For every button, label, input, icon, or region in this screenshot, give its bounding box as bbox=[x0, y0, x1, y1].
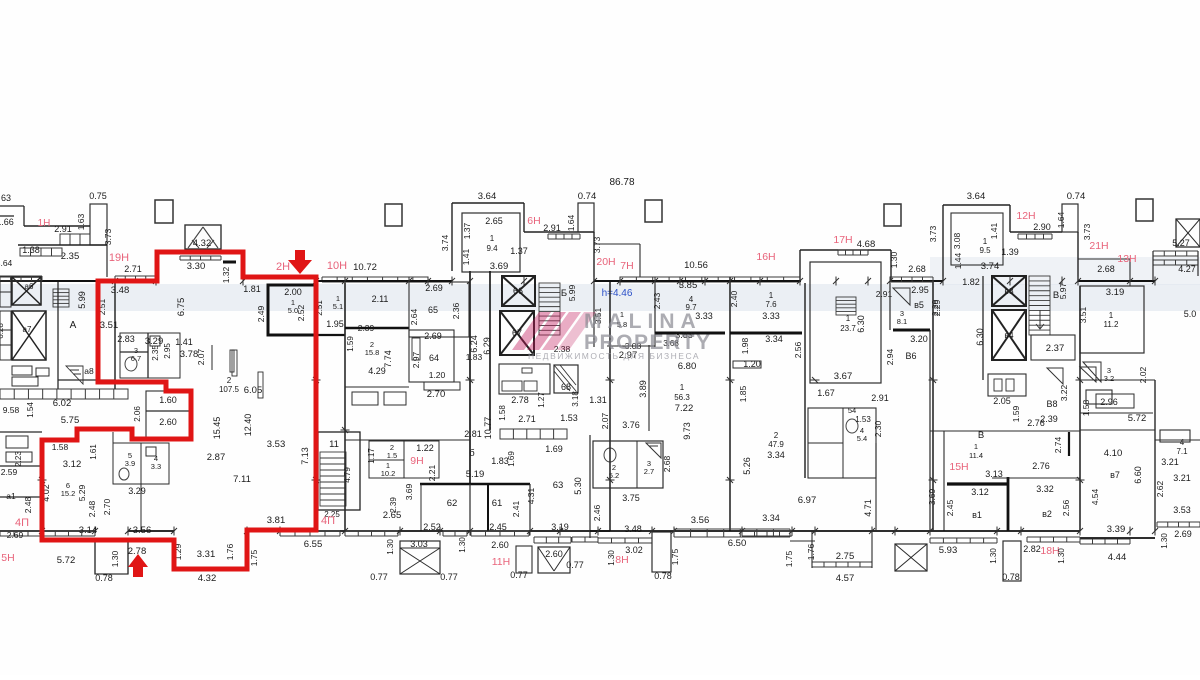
svg-text:1.44: 1.44 bbox=[953, 252, 963, 269]
svg-text:11.4: 11.4 bbox=[969, 451, 983, 460]
svg-text:7.13: 7.13 bbox=[300, 447, 310, 465]
svg-text:3.64: 3.64 bbox=[0, 258, 13, 268]
svg-text:0.74: 0.74 bbox=[578, 191, 597, 202]
svg-text:2.60: 2.60 bbox=[545, 549, 563, 559]
svg-text:10.56: 10.56 bbox=[684, 260, 708, 271]
svg-text:3.69: 3.69 bbox=[490, 261, 509, 272]
window band left of canopy bbox=[115, 276, 156, 281]
svg-text:1.76: 1.76 bbox=[806, 543, 816, 560]
stair in 23.7 bbox=[836, 297, 856, 315]
svg-text:16Н: 16Н bbox=[756, 251, 775, 263]
svg-text:2.11: 2.11 bbox=[372, 294, 389, 304]
svg-text:1.30: 1.30 bbox=[458, 537, 467, 553]
section boundary x933 bbox=[932, 281, 934, 531]
svg-text:2Н: 2Н bbox=[276, 261, 290, 273]
svg-text:2.7: 2.7 bbox=[644, 467, 654, 476]
wall under bath bbox=[113, 483, 169, 485]
hall closets bbox=[352, 392, 378, 405]
svg-text:3.21: 3.21 bbox=[1173, 473, 1191, 483]
left top wall and window 2.91 bbox=[24, 225, 90, 227]
red down arrow at 2H bbox=[288, 250, 312, 274]
svg-text:0.77: 0.77 bbox=[566, 560, 584, 570]
wall down 3.73 right bbox=[1077, 232, 1079, 281]
svg-text:1.66: 1.66 bbox=[0, 217, 14, 227]
scan tint band across plan bbox=[0, 284, 1200, 311]
svg-text:0.78: 0.78 bbox=[654, 571, 672, 581]
svg-text:1.53: 1.53 bbox=[560, 413, 578, 423]
svg-text:2.90: 2.90 bbox=[1033, 222, 1051, 232]
main top wall 594-801 bbox=[594, 280, 801, 282]
svg-text:2: 2 bbox=[227, 376, 232, 385]
svg-text:В: В bbox=[978, 430, 984, 441]
thick walls 3.83 bbox=[655, 332, 725, 335]
svg-text:1.61: 1.61 bbox=[89, 444, 98, 460]
svg-text:5.99: 5.99 bbox=[567, 284, 577, 301]
svg-text:2.45: 2.45 bbox=[945, 499, 955, 516]
svg-text:1: 1 bbox=[974, 442, 978, 451]
svg-text:2.37: 2.37 bbox=[1046, 343, 1065, 354]
svg-text:2.68: 2.68 bbox=[1097, 264, 1115, 274]
shaft wall x983 bbox=[982, 276, 984, 380]
svg-text:10.2: 10.2 bbox=[381, 469, 396, 478]
svg-text:б: б bbox=[469, 448, 475, 459]
svg-text:6.28: 6.28 bbox=[0, 323, 5, 339]
svg-text:4.44: 4.44 bbox=[1108, 552, 1127, 563]
bottom shelf rects left bbox=[12, 366, 32, 375]
right canopy with X bbox=[1176, 219, 1200, 247]
svg-text:1: 1 bbox=[490, 234, 495, 243]
svg-text:12.40: 12.40 bbox=[243, 414, 253, 437]
ledge 13H strip bbox=[1078, 258, 1130, 260]
section8 walls bbox=[1079, 286, 1081, 531]
svg-text:5.93: 5.93 bbox=[939, 545, 958, 556]
svg-text:в7: в7 bbox=[1110, 470, 1120, 480]
svg-text:3.67: 3.67 bbox=[834, 371, 853, 382]
svg-text:8.1: 8.1 bbox=[897, 317, 907, 326]
left masonry under top wall bbox=[20, 248, 62, 256]
svg-text:5.1: 5.1 bbox=[333, 302, 343, 311]
svg-text:67: 67 bbox=[512, 328, 522, 338]
svg-text:1.54: 1.54 bbox=[26, 402, 35, 418]
svg-text:1.53: 1.53 bbox=[855, 415, 871, 424]
svg-text:2.36: 2.36 bbox=[451, 302, 461, 319]
wall 3.20 thick bbox=[893, 329, 930, 332]
svg-text:2.95: 2.95 bbox=[163, 343, 172, 359]
red outline of unit 4P bbox=[42, 252, 316, 569]
svg-text:2.74: 2.74 bbox=[1053, 436, 1063, 453]
big protrusion 17H bbox=[800, 249, 891, 251]
room 9.5 inner bbox=[951, 213, 1003, 265]
svg-text:2.76: 2.76 bbox=[1027, 418, 1045, 428]
room 1/23.7 big bbox=[810, 262, 881, 383]
svg-text:19Н: 19Н bbox=[109, 252, 129, 264]
svg-text:1: 1 bbox=[769, 291, 774, 300]
svg-text:3.73: 3.73 bbox=[928, 225, 938, 242]
left rooms a1 bbox=[0, 431, 42, 433]
column box top x1137 bbox=[1136, 199, 1153, 221]
svg-text:2: 2 bbox=[774, 431, 779, 440]
stair glyphs small bbox=[1047, 368, 1063, 384]
svg-text:9.4: 9.4 bbox=[486, 244, 498, 253]
thick jamb x1069 bbox=[1068, 432, 1070, 456]
wall 2.91 with windows bbox=[524, 231, 594, 233]
left porch box 0.75 bbox=[90, 204, 107, 245]
svg-text:2.62: 2.62 bbox=[1155, 480, 1165, 497]
svg-text:2.69: 2.69 bbox=[7, 530, 24, 540]
svg-text:1.59: 1.59 bbox=[1011, 405, 1021, 422]
svg-text:6.60: 6.60 bbox=[1133, 466, 1143, 484]
svg-text:3.39: 3.39 bbox=[1107, 524, 1126, 535]
svg-text:6Н: 6Н bbox=[527, 215, 540, 227]
svg-text:7Н: 7Н bbox=[620, 260, 633, 272]
svg-text:НЕДВИЖИМОСТЬ ДЛЯ БИЗНЕСА: НЕДВИЖИМОСТЬ ДЛЯ БИЗНЕСА bbox=[528, 351, 700, 361]
svg-text:1.60: 1.60 bbox=[159, 395, 177, 405]
svg-text:3.3: 3.3 bbox=[151, 462, 161, 471]
svg-text:1.64: 1.64 bbox=[566, 214, 576, 231]
svg-text:3.75: 3.75 bbox=[622, 493, 640, 503]
svg-text:1.30: 1.30 bbox=[386, 539, 395, 555]
svg-text:4.57: 4.57 bbox=[836, 573, 855, 584]
svg-text:2.60: 2.60 bbox=[491, 540, 509, 550]
column 0.74 right bbox=[1062, 204, 1078, 232]
svg-text:3.48: 3.48 bbox=[624, 524, 642, 534]
section7 top protrusion 3.64 bbox=[943, 204, 1010, 206]
svg-text:2.46: 2.46 bbox=[592, 504, 602, 521]
svg-text:20Н: 20Н bbox=[596, 256, 615, 268]
stair glyph 3/8.1 bbox=[893, 288, 910, 305]
svg-text:3.64: 3.64 bbox=[478, 191, 497, 202]
svg-text:2.68: 2.68 bbox=[662, 455, 672, 472]
dimension ticks verticals bbox=[341, 429, 350, 431]
svg-text:10Н: 10Н bbox=[327, 260, 347, 272]
section5 verticals bbox=[609, 281, 611, 531]
balcony 2H box thick bbox=[268, 285, 316, 335]
svg-text:5.19: 5.19 bbox=[466, 469, 485, 480]
wall y413 section8 bbox=[1080, 412, 1153, 414]
svg-text:3.64: 3.64 bbox=[967, 191, 986, 202]
svg-text:7.1: 7.1 bbox=[1176, 447, 1188, 456]
svg-text:3.74: 3.74 bbox=[440, 234, 450, 251]
svg-text:4П: 4П bbox=[321, 515, 335, 527]
stair core 66/67 bbox=[502, 276, 535, 306]
svg-text:3.56: 3.56 bbox=[691, 515, 710, 526]
section8 bottom bbox=[1080, 537, 1155, 539]
porch 0.78 middle bbox=[652, 532, 671, 572]
svg-text:1.69: 1.69 bbox=[507, 451, 516, 467]
stair B bbox=[539, 283, 560, 335]
svg-text:61: 61 bbox=[492, 498, 503, 509]
right window verticals bbox=[1152, 251, 1154, 281]
svg-text:1.22: 1.22 bbox=[416, 443, 434, 453]
svg-text:1.69: 1.69 bbox=[545, 444, 563, 454]
svg-text:4.68: 4.68 bbox=[857, 239, 876, 250]
wall y431 section7 bbox=[930, 430, 1080, 432]
svg-text:17Н: 17Н bbox=[833, 234, 852, 246]
svg-text:6.55: 6.55 bbox=[304, 539, 323, 550]
bath rooms 3.9/3.3 bbox=[113, 443, 169, 484]
svg-text:3.73: 3.73 bbox=[103, 228, 113, 245]
svg-text:1.82: 1.82 bbox=[962, 277, 980, 287]
interior walls lower part bbox=[114, 281, 116, 389]
left wall with 19H bbox=[98, 280, 115, 282]
red up arrow at bottom bbox=[128, 554, 148, 577]
svg-text:в4: в4 bbox=[1004, 330, 1014, 340]
wall x470 lower bbox=[469, 484, 471, 531]
svg-text:2.23: 2.23 bbox=[14, 451, 23, 467]
svg-text:в3: в3 bbox=[1004, 286, 1014, 296]
svg-text:11: 11 bbox=[329, 439, 339, 450]
svg-text:2.43: 2.43 bbox=[652, 292, 662, 309]
svg-text:2.06: 2.06 bbox=[133, 406, 142, 422]
svg-text:2.30: 2.30 bbox=[873, 420, 883, 437]
svg-text:3.48: 3.48 bbox=[111, 285, 130, 296]
masonry band under storage bbox=[500, 429, 567, 439]
svg-text:2.91: 2.91 bbox=[871, 393, 889, 403]
recessed terrace 2.75 bbox=[790, 540, 815, 542]
svg-text:4.27: 4.27 bbox=[1178, 264, 1196, 274]
svg-text:1.20: 1.20 bbox=[429, 370, 446, 380]
svg-text:1.30: 1.30 bbox=[889, 251, 899, 268]
svg-text:2.94: 2.94 bbox=[885, 348, 895, 365]
svg-text:3.69: 3.69 bbox=[927, 488, 937, 505]
column box top x386 bbox=[385, 204, 402, 226]
svg-text:2.35: 2.35 bbox=[151, 345, 160, 361]
bath cluster 5.2/2.7 bbox=[593, 441, 663, 488]
svg-text:1.30: 1.30 bbox=[110, 550, 120, 567]
svg-text:2.52: 2.52 bbox=[296, 304, 306, 321]
svg-text:15.45: 15.45 bbox=[212, 417, 222, 440]
svg-text:0.74: 0.74 bbox=[1067, 191, 1086, 202]
svg-text:3.30: 3.30 bbox=[187, 261, 206, 272]
svg-text:62: 62 bbox=[447, 498, 458, 509]
svg-text:2.68: 2.68 bbox=[908, 264, 926, 274]
svg-text:2.07: 2.07 bbox=[600, 412, 610, 429]
svg-text:3.22: 3.22 bbox=[1059, 384, 1069, 401]
svg-text:2.49: 2.49 bbox=[256, 305, 266, 322]
svg-text:в2: в2 bbox=[1042, 509, 1052, 519]
svg-text:3.73: 3.73 bbox=[1082, 223, 1092, 240]
fixtures right bbox=[1086, 390, 1112, 404]
radiator marks in big room bbox=[232, 350, 237, 376]
svg-text:1.58: 1.58 bbox=[52, 442, 69, 452]
svg-text:h=4.46: h=4.46 bbox=[602, 288, 633, 299]
bathroom 3/6.7 in red unit bbox=[120, 333, 180, 378]
closet 1.60/2.60 bbox=[146, 391, 191, 438]
svg-text:1.67: 1.67 bbox=[817, 388, 835, 398]
svg-text:3.53: 3.53 bbox=[1173, 505, 1191, 515]
svg-text:3.33: 3.33 bbox=[762, 311, 780, 321]
window right of porch bbox=[443, 531, 467, 536]
svg-text:1.41: 1.41 bbox=[175, 337, 193, 347]
window band x891 bbox=[891, 277, 933, 282]
svg-text:1.59: 1.59 bbox=[346, 336, 355, 352]
main top wall 620-800 windows bbox=[620, 277, 800, 282]
svg-text:86.78: 86.78 bbox=[609, 177, 634, 188]
svg-text:6.24: 6.24 bbox=[469, 335, 479, 353]
svg-text:6.05: 6.05 bbox=[244, 385, 263, 396]
svg-text:6.80: 6.80 bbox=[678, 361, 697, 372]
dimension ticks top wall bbox=[114, 277, 116, 286]
protrusion inner room 9.4 bbox=[462, 213, 520, 272]
svg-text:6.75: 6.75 bbox=[176, 298, 187, 317]
column box top x646 bbox=[645, 200, 662, 222]
svg-text:1.83: 1.83 bbox=[466, 352, 483, 362]
svg-text:2.75: 2.75 bbox=[836, 551, 855, 562]
svg-text:1.5: 1.5 bbox=[387, 451, 397, 460]
corner stair glyph in bath bbox=[646, 443, 661, 458]
section4 bottom bbox=[470, 530, 610, 532]
elevator B3 bbox=[992, 276, 1026, 306]
svg-text:2.70: 2.70 bbox=[102, 498, 112, 515]
thick wall near 15H bbox=[947, 482, 1008, 485]
svg-text:13Н: 13Н bbox=[1117, 253, 1136, 265]
svg-text:4.31: 4.31 bbox=[526, 487, 536, 504]
wall left of bath cluster bbox=[589, 435, 591, 538]
svg-text:2.81: 2.81 bbox=[464, 429, 482, 439]
svg-text:6.7: 6.7 bbox=[131, 354, 141, 363]
section6 boundary bbox=[929, 330, 931, 531]
svg-text:3.21: 3.21 bbox=[1161, 457, 1179, 467]
svg-text:1.75: 1.75 bbox=[670, 548, 680, 565]
svg-text:в1: в1 bbox=[972, 510, 982, 520]
svg-text:2.95: 2.95 bbox=[911, 285, 929, 295]
svg-text:2.59: 2.59 bbox=[1, 467, 18, 477]
small rooms 1.22 cluster bbox=[369, 441, 439, 478]
left small fixtures bbox=[6, 436, 28, 448]
left masonry wall 6.02 bbox=[0, 389, 128, 399]
room B8 fixtures bbox=[988, 374, 1026, 396]
svg-text:2.21: 2.21 bbox=[427, 464, 437, 481]
main bottom wall left bbox=[42, 530, 95, 532]
svg-text:21Н: 21Н bbox=[1089, 240, 1108, 252]
svg-text:2.56: 2.56 bbox=[1061, 499, 1071, 516]
svg-text:9.58: 9.58 bbox=[3, 405, 20, 415]
dimension ticks bottom wall bbox=[41, 527, 43, 536]
corridor wall x876 bbox=[875, 443, 877, 531]
svg-text:65: 65 bbox=[428, 305, 438, 315]
svg-text:5.97: 5.97 bbox=[1058, 282, 1068, 299]
svg-text:68: 68 bbox=[561, 382, 571, 392]
svg-text:4.29: 4.29 bbox=[368, 366, 386, 376]
svg-text:2.71: 2.71 bbox=[518, 414, 536, 424]
svg-text:4П: 4П bbox=[15, 517, 29, 529]
svg-text:7.11: 7.11 bbox=[233, 474, 251, 485]
svg-text:2.65: 2.65 bbox=[485, 216, 503, 226]
elevator a7 bbox=[12, 311, 46, 360]
svg-text:54: 54 bbox=[848, 406, 856, 415]
svg-text:2.91: 2.91 bbox=[54, 224, 72, 234]
column 0.74 top bbox=[578, 203, 594, 232]
svg-text:1.30: 1.30 bbox=[989, 548, 998, 564]
windows bottom 3.34 bbox=[742, 531, 792, 536]
svg-text:15.8: 15.8 bbox=[365, 348, 380, 357]
svg-text:3.08: 3.08 bbox=[952, 232, 962, 249]
svg-text:5.75: 5.75 bbox=[61, 415, 80, 426]
svg-text:1.32: 1.32 bbox=[221, 266, 231, 283]
svg-text:3.12: 3.12 bbox=[971, 487, 989, 497]
room B2 wall bbox=[1007, 477, 1010, 531]
divider wall x805 bbox=[804, 283, 806, 478]
svg-text:1.30: 1.30 bbox=[1057, 548, 1066, 564]
svg-text:5.26: 5.26 bbox=[742, 457, 752, 475]
svg-text:63: 63 bbox=[1, 193, 11, 203]
wall 2.90 and windows bbox=[1010, 231, 1062, 233]
svg-text:1.58: 1.58 bbox=[498, 405, 507, 421]
section3 verticals bbox=[344, 283, 346, 531]
svg-text:2.69: 2.69 bbox=[424, 331, 442, 341]
ledge wall 20H strip bbox=[594, 243, 640, 245]
left bottom wall bbox=[0, 530, 42, 532]
box around 2.96 bbox=[1096, 394, 1134, 408]
svg-text:0.77: 0.77 bbox=[370, 572, 388, 582]
section7 bottom bbox=[930, 530, 1080, 532]
svg-text:1: 1 bbox=[846, 314, 851, 323]
svg-text:а1: а1 bbox=[6, 491, 16, 501]
svg-text:1.17: 1.17 bbox=[367, 448, 376, 464]
svg-text:23.7: 23.7 bbox=[840, 324, 856, 333]
svg-text:2.39: 2.39 bbox=[358, 323, 375, 333]
svg-text:66: 66 bbox=[513, 286, 523, 296]
svg-text:5.27: 5.27 bbox=[1172, 238, 1190, 248]
svg-text:a6: a6 bbox=[25, 282, 34, 291]
bottom porch walls bbox=[94, 541, 96, 574]
svg-text:47.9: 47.9 bbox=[768, 440, 784, 449]
svg-text:3.19: 3.19 bbox=[1106, 287, 1125, 298]
svg-text:4.71: 4.71 bbox=[863, 499, 873, 517]
svg-text:10.72: 10.72 bbox=[353, 262, 377, 273]
svg-text:107.5: 107.5 bbox=[219, 385, 240, 394]
svg-text:2.40: 2.40 bbox=[729, 290, 739, 307]
svg-text:10.77: 10.77 bbox=[483, 417, 493, 440]
svg-text:1.41: 1.41 bbox=[461, 248, 471, 265]
svg-text:a7: a7 bbox=[23, 325, 32, 334]
long window band 6.50 bbox=[674, 529, 790, 537]
svg-text:1.81: 1.81 bbox=[243, 284, 261, 294]
wall y346 under 2.97 bbox=[607, 345, 655, 347]
svg-text:4.32: 4.32 bbox=[198, 573, 217, 584]
svg-text:11.2: 11.2 bbox=[1104, 320, 1120, 329]
svg-text:15.2: 15.2 bbox=[61, 489, 76, 498]
stair by a6 bbox=[53, 289, 69, 307]
thick wall 5.19 bbox=[420, 483, 530, 485]
svg-text:9Н: 9Н bbox=[410, 455, 423, 467]
svg-text:3.76: 3.76 bbox=[622, 420, 640, 430]
svg-text:0.75: 0.75 bbox=[89, 191, 107, 201]
svg-text:9.5: 9.5 bbox=[979, 246, 991, 255]
svg-text:a8: a8 bbox=[84, 366, 94, 376]
svg-text:5Н: 5Н bbox=[1, 552, 14, 564]
entrance porch below wall bbox=[95, 541, 128, 574]
svg-text:2.07: 2.07 bbox=[196, 348, 206, 365]
svg-text:3.31: 3.31 bbox=[197, 549, 216, 560]
svg-text:0.77: 0.77 bbox=[510, 570, 528, 580]
svg-text:1.85: 1.85 bbox=[738, 385, 748, 402]
column box top-left bbox=[155, 200, 173, 223]
svg-text:4.54: 4.54 bbox=[1090, 488, 1100, 505]
svg-text:1.63: 1.63 bbox=[76, 213, 86, 230]
svg-text:1.37: 1.37 bbox=[510, 246, 528, 256]
svg-text:1: 1 bbox=[983, 237, 988, 246]
window B2 bottom bbox=[1027, 537, 1080, 542]
room 11.2 bbox=[1080, 286, 1144, 353]
svg-text:2.76: 2.76 bbox=[1032, 461, 1050, 471]
section4 protrusion 3.64 outer bbox=[452, 202, 524, 204]
svg-text:2.56: 2.56 bbox=[793, 341, 803, 358]
section6 bottom wall bbox=[815, 530, 930, 532]
svg-text:1.30: 1.30 bbox=[1160, 533, 1169, 549]
section3 top window band bbox=[322, 277, 428, 282]
svg-text:8Н: 8Н bbox=[615, 554, 628, 566]
